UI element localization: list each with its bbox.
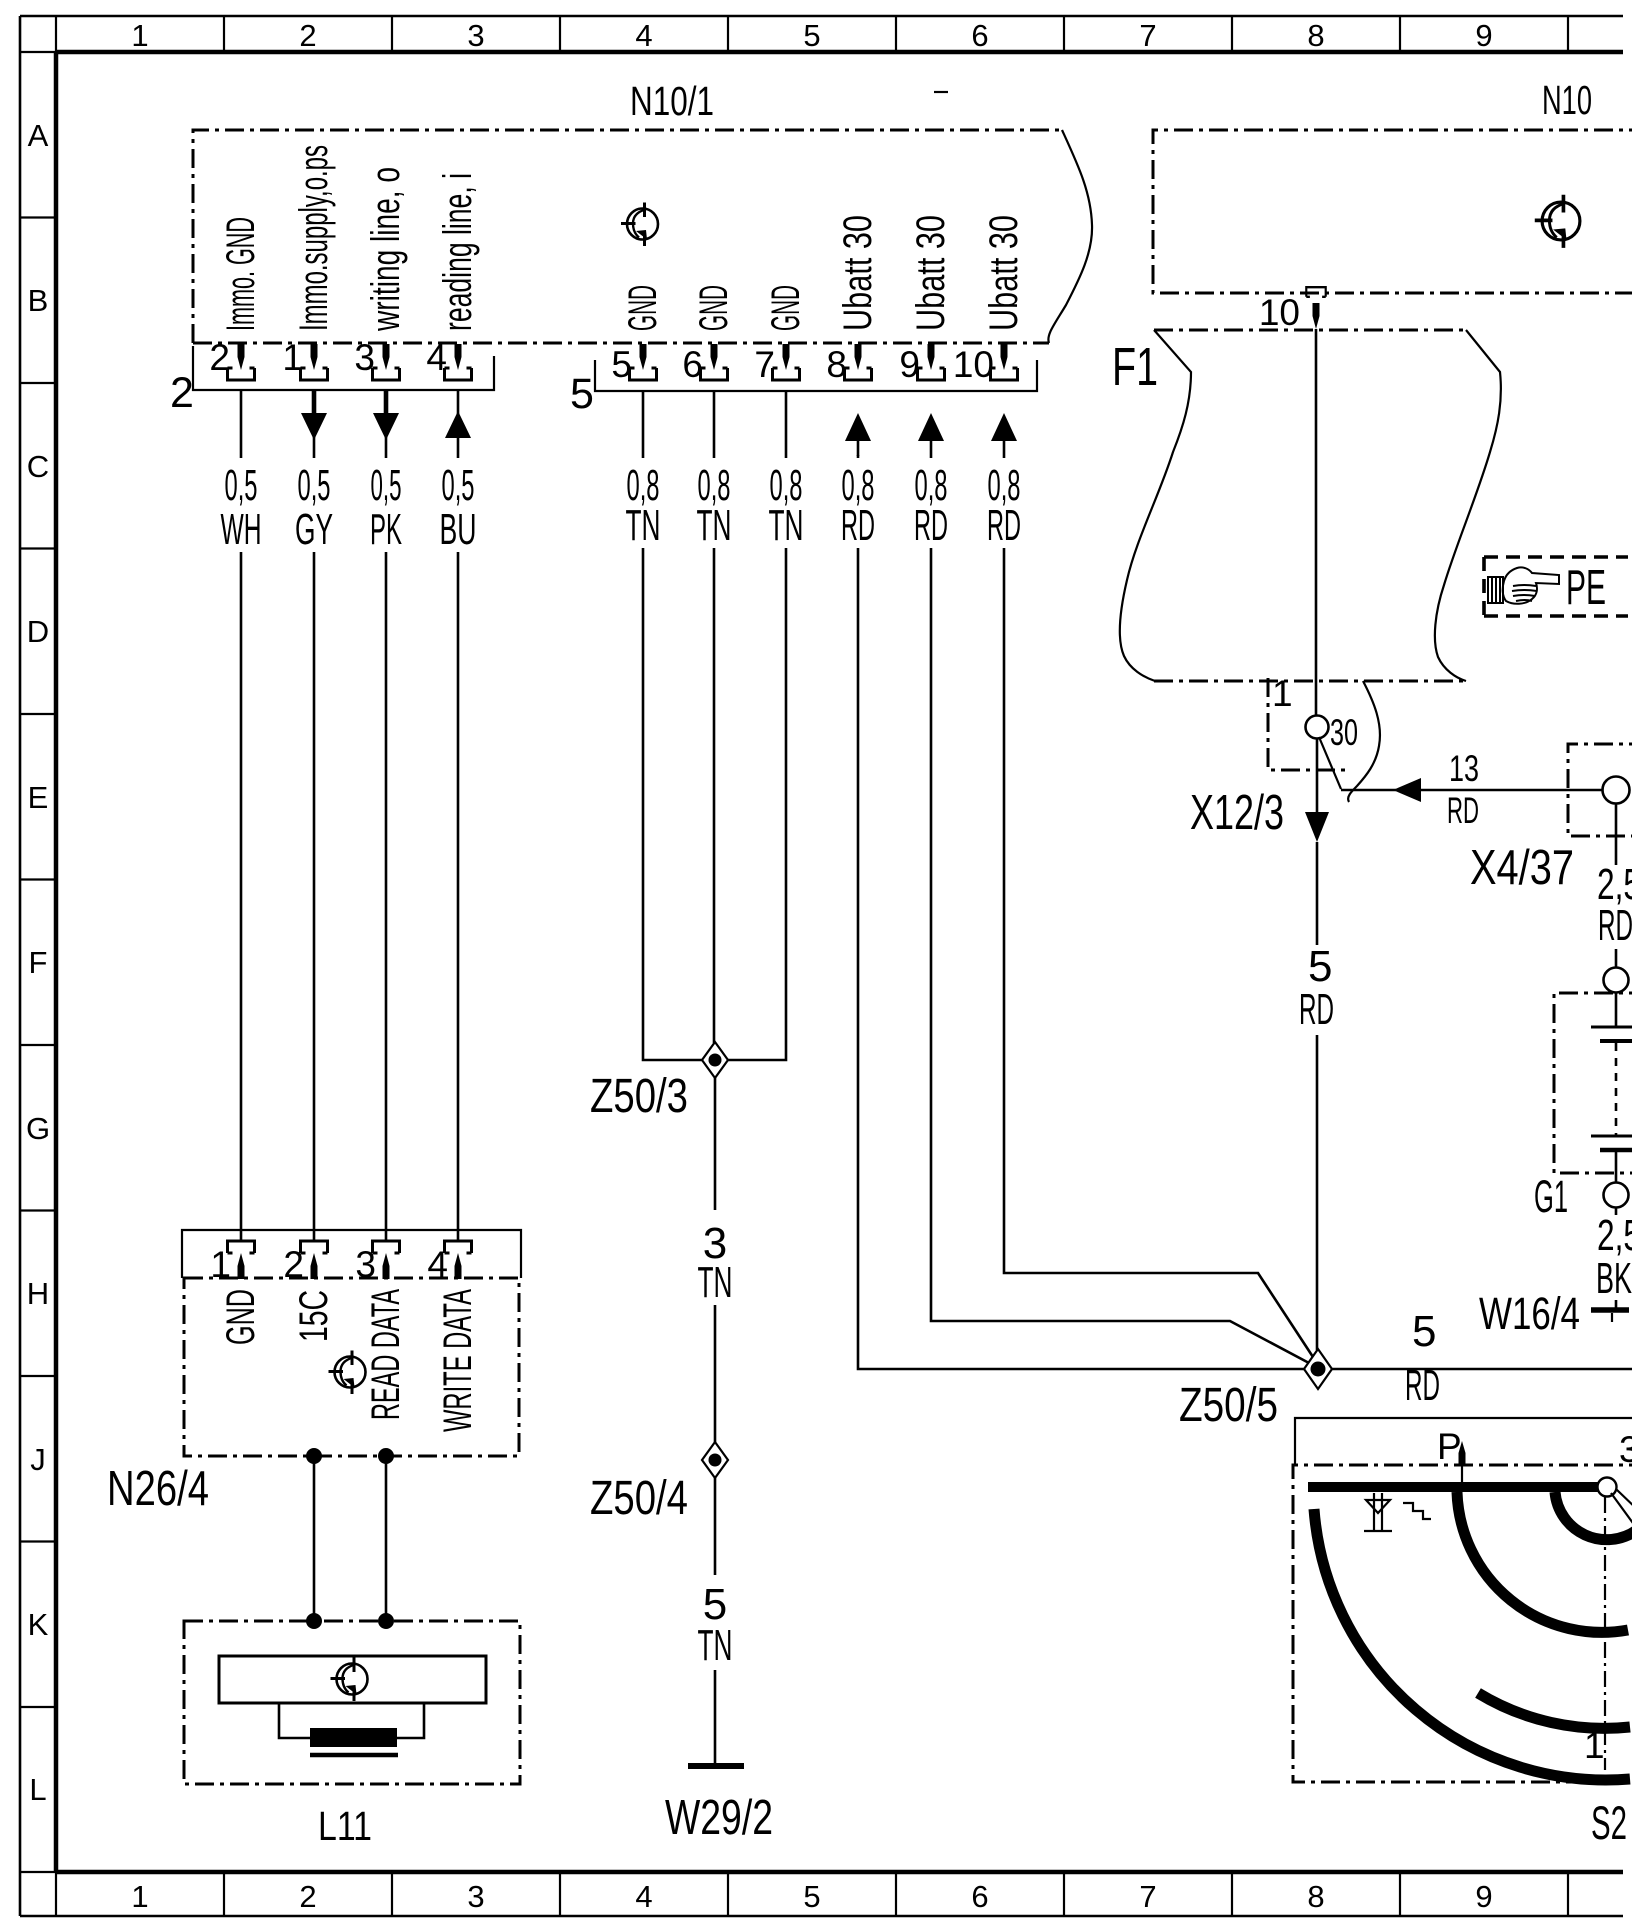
- svg-text:GY: GY: [295, 505, 333, 554]
- wire 0,5 BU pin4 to N26/4 pin4: [457, 390, 460, 1240]
- component symbol in N10/1: [621, 203, 658, 247]
- svg-text:X12/3: X12/3: [1190, 786, 1284, 840]
- svg-text:6: 6: [971, 18, 988, 53]
- svg-text:TN: TN: [626, 501, 661, 550]
- svg-text:RD: RD: [841, 501, 875, 550]
- F1 box bottom edge: [1154, 680, 1466, 683]
- svg-text:GND: GND: [692, 285, 736, 331]
- svg-text:TN: TN: [698, 1258, 733, 1307]
- switch arc small: [1555, 1492, 1637, 1540]
- svg-text:8: 8: [826, 344, 847, 385]
- N10/1 box outline: [193, 130, 1062, 343]
- svg-text:9: 9: [899, 344, 920, 385]
- svg-text:30: 30: [1330, 712, 1358, 753]
- S2 dash-dot box: [1293, 1465, 1648, 1782]
- top ruler numbers: [131, 18, 1492, 53]
- bottom ruler numbers: [131, 1879, 1492, 1914]
- step symbol: [1403, 1503, 1431, 1519]
- wire N26/4 pin3 to L11: [385, 1456, 388, 1621]
- pin 1 of N10/1: [311, 344, 318, 370]
- connector strip 2 outline: [193, 346, 494, 390]
- svg-text:2: 2: [299, 18, 316, 53]
- wavy cut right of terminal 30: [1348, 681, 1380, 802]
- X4/37 terminal circle: [1603, 777, 1630, 804]
- svg-text:5: 5: [611, 344, 632, 385]
- svg-text:G: G: [26, 1111, 50, 1146]
- pivot circle: [1598, 1478, 1617, 1497]
- wire terminal 30 down to Z50/5 (5 RD): [1316, 738, 1319, 812]
- svg-text:0,5: 0,5: [371, 461, 402, 510]
- svg-text:H: H: [27, 1276, 49, 1311]
- svg-text:1: 1: [131, 18, 148, 53]
- component symbol in N10: [1535, 195, 1580, 248]
- svg-text:9: 9: [1475, 1879, 1492, 1914]
- svg-text:1: 1: [282, 337, 303, 378]
- N10 box: [1153, 130, 1648, 293]
- S2 outer box: [1295, 1418, 1648, 1465]
- wire N26/4 pin2 to L11: [313, 1456, 316, 1621]
- svg-text:Immo.supply,o.ps: Immo.supply,o.ps: [292, 145, 336, 331]
- left row letters: [26, 118, 50, 1807]
- coil winding (filled): [310, 1728, 397, 1747]
- pin 3 of N10/1: [383, 344, 390, 370]
- L11 box: [184, 1621, 520, 1784]
- svg-text:BK: BK: [1596, 1254, 1632, 1303]
- pin 6 of N10/1: [711, 344, 718, 370]
- pin 1 of S2: [1594, 1781, 1620, 1784]
- pin 3 of N26/4: [373, 1241, 400, 1253]
- dash mark: [934, 91, 948, 93]
- svg-text:WH: WH: [221, 505, 262, 554]
- coil legs: [279, 1703, 424, 1738]
- svg-text:Ubatt 30: Ubatt 30: [836, 215, 880, 331]
- svg-text:3: 3: [467, 18, 484, 53]
- svg-text:N10/1: N10/1: [630, 78, 714, 124]
- svg-text:9: 9: [1475, 18, 1492, 53]
- solder joint Z50/4: [590, 1442, 728, 1525]
- pointing hand icon: [1488, 567, 1559, 603]
- svg-text:10: 10: [953, 344, 994, 385]
- top ruler dividers: [56, 16, 1568, 52]
- svg-text:D: D: [27, 614, 49, 649]
- left letter cell dividers: [20, 52, 56, 1872]
- G1 battery terminal circle +: [1604, 968, 1629, 993]
- wire 0,8 RD pin10: [1004, 441, 1313, 1357]
- pin 10 of N10/1: [1001, 344, 1008, 370]
- terminal 30 circle: [1306, 716, 1329, 739]
- N10/1 wavy right edge: [1048, 130, 1092, 343]
- svg-text:3: 3: [354, 337, 375, 378]
- svg-text:A: A: [28, 118, 49, 153]
- svg-text:7: 7: [1139, 1879, 1156, 1914]
- svg-text:E: E: [28, 780, 49, 815]
- wire 0,5 WH pin2 to N26/4 pin1: [240, 390, 243, 1240]
- wire 0,8 TN pin5: [643, 390, 702, 1060]
- svg-text:3: 3: [467, 1879, 484, 1914]
- svg-text:RD: RD: [914, 501, 948, 550]
- svg-text:1: 1: [1272, 673, 1293, 714]
- svg-text:5: 5: [803, 18, 820, 53]
- pin 10 of N10: [1306, 287, 1325, 297]
- svg-text:Z50/3: Z50/3: [590, 1070, 688, 1123]
- svg-text:L11: L11: [318, 1803, 372, 1849]
- wire pin10 to fuse 30: [1315, 329, 1318, 716]
- F1 wavy left edge: [1120, 330, 1191, 681]
- svg-text:Z50/5: Z50/5: [1179, 1379, 1278, 1432]
- component symbol in N26/4: [329, 1351, 366, 1395]
- S2 dash-dot centre line: [1604, 1497, 1606, 1770]
- svg-text:0,5: 0,5: [225, 461, 258, 510]
- svg-text:Ubatt 30: Ubatt 30: [982, 215, 1026, 331]
- svg-text:1: 1: [131, 1879, 148, 1914]
- svg-text:7: 7: [1139, 18, 1156, 53]
- svg-text:RD: RD: [1598, 901, 1633, 950]
- svg-text:0,5: 0,5: [298, 461, 331, 510]
- svg-text:2: 2: [170, 369, 194, 417]
- svg-text:6: 6: [682, 344, 703, 385]
- svg-text:Z50/4: Z50/4: [590, 1472, 688, 1525]
- coil core line: [310, 1753, 398, 1758]
- PE dashed box: [1484, 557, 1628, 616]
- N26/4 box: [184, 1278, 519, 1456]
- svg-text:X4/37: X4/37: [1470, 841, 1574, 895]
- svg-text:8: 8: [1307, 1879, 1324, 1914]
- pin 5 of N10/1: [640, 344, 647, 370]
- svg-text:C: C: [27, 449, 49, 484]
- terminal 30 box: [1268, 678, 1345, 770]
- svg-text:WRITE DATA: WRITE DATA: [436, 1289, 480, 1432]
- pin 2 of N10/1: [238, 344, 245, 370]
- svg-text:BU: BU: [440, 505, 477, 554]
- wire 2,5 BK G1 to ground W16/4: [1615, 1208, 1618, 1309]
- svg-text:N10: N10: [1542, 77, 1592, 123]
- N26/4 connector strip: [182, 1230, 521, 1278]
- ground W16/4: [1479, 1288, 1629, 1339]
- svg-text:4: 4: [426, 337, 447, 378]
- svg-text:reading line, i: reading line, i: [436, 173, 480, 331]
- svg-text:PE: PE: [1566, 561, 1606, 615]
- svg-text:READ DATA: READ DATA: [364, 1289, 408, 1420]
- svg-text:13: 13: [1449, 748, 1479, 789]
- svg-text:PK: PK: [370, 505, 402, 554]
- pin 4 of N26/4: [445, 1241, 472, 1253]
- svg-text:7: 7: [754, 344, 775, 385]
- svg-text:5: 5: [803, 1879, 820, 1914]
- X4/37 box: [1568, 744, 1648, 836]
- svg-text:W16/4: W16/4: [1479, 1288, 1580, 1339]
- wire 5 RD Z50/5 to ignition switch: [1332, 1368, 1648, 1371]
- switch contact bar: [1308, 1482, 1604, 1492]
- svg-text:L: L: [29, 1772, 46, 1807]
- svg-text:J: J: [30, 1442, 46, 1477]
- svg-text:Ubatt 30: Ubatt 30: [909, 215, 953, 331]
- F1 wavy right edge: [1435, 330, 1501, 681]
- svg-text:4: 4: [635, 1879, 652, 1914]
- pin 1 of N26/4: [228, 1241, 255, 1253]
- component symbol in L11: [331, 1658, 368, 1702]
- svg-text:GND: GND: [621, 285, 665, 331]
- L11 bar: [219, 1656, 486, 1703]
- junction dot L11 right: [378, 1613, 394, 1629]
- switch arc segment: [1478, 1693, 1630, 1728]
- svg-text:5: 5: [1412, 1307, 1436, 1356]
- svg-text:F1: F1: [1112, 337, 1158, 397]
- svg-text:B: B: [28, 283, 49, 318]
- svg-text:TN: TN: [697, 501, 732, 550]
- wire 0,8 RD pin9: [931, 441, 1309, 1363]
- svg-text:GND: GND: [764, 285, 808, 331]
- pin 9 of N10/1: [928, 344, 935, 370]
- svg-text:S2: S2: [1591, 1796, 1627, 1849]
- svg-text:writing line, o: writing line, o: [364, 167, 408, 332]
- svg-text:TN: TN: [698, 1621, 733, 1670]
- svg-text:15C: 15C: [292, 1290, 336, 1342]
- ground W29/2: [665, 1766, 773, 1845]
- pin 2 of N26/4: [301, 1241, 328, 1253]
- junction dot pin2 bottom: [306, 1448, 322, 1464]
- svg-text:RD: RD: [1299, 985, 1334, 1034]
- wire 0,5 PK pin3 to N26/4 pin3: [384, 390, 389, 413]
- svg-text:4: 4: [635, 18, 652, 53]
- battery G1: [1534, 993, 1646, 1222]
- svg-text:2: 2: [299, 1879, 316, 1914]
- svg-text:RD: RD: [1405, 1361, 1440, 1410]
- svg-text:RD: RD: [1447, 790, 1479, 831]
- svg-text:P: P: [1437, 1426, 1462, 1467]
- wire 5 TN Z50/4 to ground W29/2: [714, 1478, 717, 1766]
- wire 0,5 GY pin1 to N26/4 pin2: [312, 390, 317, 413]
- svg-text:Immo. GND: Immo. GND: [219, 217, 263, 331]
- wire 0,8 RD pin8: [858, 455, 1305, 1369]
- G1 box: [1554, 993, 1648, 1173]
- svg-text:8: 8: [1307, 18, 1324, 53]
- svg-text:5: 5: [570, 370, 594, 418]
- svg-text:TN: TN: [769, 501, 804, 550]
- pin 7 of N10/1: [783, 344, 790, 370]
- solder joint Z50/3: [590, 1042, 728, 1123]
- pin 8 of N10/1: [855, 344, 862, 370]
- svg-text:2: 2: [209, 337, 230, 378]
- svg-text:K: K: [28, 1607, 49, 1642]
- junction dot pin3 bottom: [378, 1448, 394, 1464]
- svg-text:G1: G1: [1534, 1171, 1568, 1222]
- svg-text:6: 6: [971, 1879, 988, 1914]
- wire 0,8 TN pin6: [713, 390, 716, 1043]
- G1 negative terminal circle: [1604, 1183, 1629, 1208]
- pin 4 of N10/1: [455, 344, 462, 370]
- svg-text:W29/2: W29/2: [665, 1791, 773, 1845]
- svg-text:10: 10: [1259, 292, 1300, 333]
- svg-text:0,5: 0,5: [442, 461, 475, 510]
- F1 box top edge: [1154, 329, 1466, 332]
- wire 0,8 TN pin7: [728, 390, 786, 1060]
- junction dot L11 left: [306, 1613, 322, 1629]
- switch arc large: [1314, 1509, 1630, 1780]
- wire 3 TN Z50/3 to Z50/4: [714, 1078, 717, 1442]
- svg-text:N26/4: N26/4: [107, 1462, 209, 1516]
- wire 13 RD: terminal 30 to X4/37: [1319, 737, 1341, 789]
- switch arc middle: [1457, 1492, 1628, 1632]
- svg-text:1: 1: [1584, 1725, 1605, 1766]
- svg-text:5: 5: [1308, 942, 1332, 991]
- key symbol: [1364, 1493, 1392, 1531]
- svg-text:F: F: [29, 945, 48, 980]
- wiper lines: [1611, 1489, 1640, 1530]
- bottom ruler dividers: [56, 1872, 1568, 1916]
- wire 2,5 RD X4/37 to G1: [1615, 804, 1618, 967]
- svg-text:GND: GND: [219, 1289, 263, 1345]
- connector strip 5 outline: [595, 360, 1037, 391]
- svg-text:RD: RD: [987, 501, 1021, 550]
